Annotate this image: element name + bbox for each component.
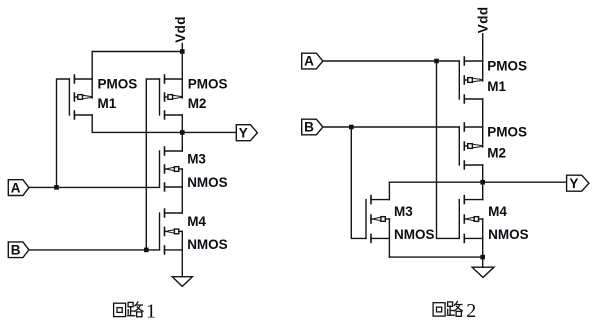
port B (left) xyxy=(8,242,29,258)
wire M1 gate feed from node A xyxy=(57,79,70,187)
label PMOS (M1) xyxy=(98,76,138,91)
wire output net Y (right) xyxy=(389,181,566,183)
svg-text:NMOS: NMOS xyxy=(488,227,528,242)
svg-text:M4: M4 xyxy=(187,214,206,229)
caption 回路 2 xyxy=(433,300,476,322)
transistor M1 (PMOS, left circuit) xyxy=(69,75,92,119)
port A (left) xyxy=(8,180,29,196)
svg-text:M1: M1 xyxy=(487,79,506,94)
port Y (left) xyxy=(236,125,257,141)
svg-text:PMOS: PMOS xyxy=(98,76,138,91)
svg-text:Vdd: Vdd xyxy=(173,16,188,43)
wire input A (right) xyxy=(323,60,459,62)
svg-text:PMOS: PMOS xyxy=(188,76,228,91)
label NMOS (right M3) xyxy=(394,227,435,242)
label M2 xyxy=(188,96,207,111)
node B junction (right) xyxy=(349,125,354,130)
wire M3 drain from output (right) xyxy=(388,182,390,199)
node Vdd junction (left) xyxy=(180,49,185,54)
ground symbol (right) xyxy=(472,267,494,277)
wire M4 source to ground (right) xyxy=(482,219,484,267)
label M4 xyxy=(187,214,206,229)
wire top rail Vdd to M1/M2 sources (left) xyxy=(92,51,182,53)
wire M1 drain to M2 source (right) xyxy=(482,99,484,147)
power Vdd (left) label xyxy=(173,16,188,43)
wire M3 source to ground rail (right) xyxy=(388,219,390,257)
wire Vdd stub (left) xyxy=(181,44,183,52)
port Y (right) xyxy=(567,175,589,191)
label PMOS (right M2) xyxy=(487,124,527,139)
node B junction (left) xyxy=(144,248,149,253)
label M1 (right) xyxy=(487,79,506,94)
power Vdd (right) label xyxy=(475,6,490,33)
ground symbol (left) xyxy=(172,277,192,287)
caption 回路 1 xyxy=(114,300,156,322)
label PMOS (right M1) xyxy=(487,58,527,73)
label PMOS (M2) xyxy=(188,76,228,91)
wire M2 gate feed from node B xyxy=(146,79,159,250)
label M1 xyxy=(98,96,117,111)
label NMOS (M4) xyxy=(187,237,228,252)
label NMOS (M3) xyxy=(187,175,228,190)
wire Vdd stub (right) xyxy=(482,34,484,61)
wire input A (left) xyxy=(29,186,160,188)
wire B vertical to M3 gate (right) xyxy=(351,127,366,238)
node A junction (left) xyxy=(54,185,59,190)
node ground junction (right) xyxy=(480,255,485,260)
svg-text:Y: Y xyxy=(239,126,248,141)
svg-text:NMOS: NMOS xyxy=(187,237,228,252)
svg-text:M3: M3 xyxy=(187,152,206,167)
transistor M2 (PMOS, left circuit) xyxy=(160,75,183,119)
svg-text:PMOS: PMOS xyxy=(487,58,527,73)
label M3 (right) xyxy=(394,204,413,219)
wire M3 source to M4 drain xyxy=(181,169,183,213)
node output junction (left) xyxy=(180,130,185,135)
svg-text:2: 2 xyxy=(466,300,476,322)
svg-text:M2: M2 xyxy=(188,96,207,111)
svg-text:1: 1 xyxy=(146,300,156,322)
label M3 xyxy=(187,152,206,167)
wire input B (left) xyxy=(29,249,160,251)
wire M2 drain to output xyxy=(181,115,183,132)
transistor M4 (NMOS, right circuit) xyxy=(459,196,482,243)
label M2 (right) xyxy=(487,145,506,160)
svg-text:M2: M2 xyxy=(487,145,506,160)
transistor M3 (NMOS, left circuit) xyxy=(160,147,183,191)
transistor M1 (PMOS, right circuit) xyxy=(459,57,482,103)
label NMOS (right M4) xyxy=(488,227,528,242)
transistor M3 (NMOS, right circuit) xyxy=(366,196,389,243)
svg-text:Y: Y xyxy=(569,176,578,191)
wire M4 source to ground xyxy=(181,231,183,276)
svg-text:B: B xyxy=(11,243,21,258)
wire M2 drain to output (right) xyxy=(482,165,484,182)
svg-text:A: A xyxy=(11,180,21,195)
transistor M4 (NMOS, left circuit) xyxy=(160,209,183,254)
svg-text:M1: M1 xyxy=(98,96,117,111)
wire output net Y (left) xyxy=(92,131,236,133)
node output junction (right) xyxy=(480,180,485,185)
svg-text:NMOS: NMOS xyxy=(187,175,228,190)
svg-text:M3: M3 xyxy=(394,204,413,219)
svg-text:M4: M4 xyxy=(488,204,507,219)
wire bottom ground rail (right) xyxy=(389,256,482,258)
node A junction (right) xyxy=(434,59,439,64)
wire M4 drain from output (right) xyxy=(482,182,484,199)
svg-text:PMOS: PMOS xyxy=(487,124,527,139)
svg-text:Vdd: Vdd xyxy=(475,6,490,33)
label M4 (right) xyxy=(488,204,507,219)
wire input B (right) xyxy=(323,126,459,128)
svg-text:A: A xyxy=(304,54,314,69)
wire M1 source/bulk to Vdd (right) xyxy=(482,61,484,81)
wire M2 source to top rail xyxy=(181,52,183,98)
port A (right) xyxy=(302,53,323,69)
svg-text:B: B xyxy=(304,120,314,135)
transistor M2 (PMOS, right circuit) xyxy=(459,123,482,169)
wire M3 drain from output node xyxy=(181,132,183,151)
wire A vertical to M4 gate (right) xyxy=(437,61,460,238)
svg-text:NMOS: NMOS xyxy=(394,227,435,242)
wire M1 source to top rail xyxy=(91,52,93,98)
port B (right) xyxy=(302,119,323,135)
wire M1 drain to output xyxy=(91,115,93,132)
